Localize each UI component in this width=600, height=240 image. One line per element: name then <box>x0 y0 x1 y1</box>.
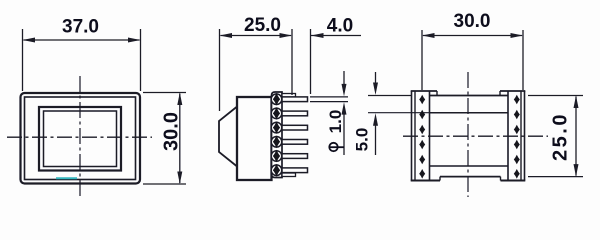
dimension 30.0 (front view height) extension line top <box>143 92 186 94</box>
dimension 25.0 line with arrows <box>220 33 293 38</box>
dimension 37.0 line with arrows <box>23 38 141 43</box>
dimension 25.0 extension line right <box>291 29 293 95</box>
pin 3 bar <box>282 125 308 130</box>
right strip pin diamonds <box>514 95 520 179</box>
dimension symbol phi <box>329 143 344 151</box>
dimension 5.0 extension line upper <box>368 95 412 97</box>
side view pin strip <box>272 92 283 178</box>
svg-text:25.0: 25.0 <box>244 15 281 36</box>
side view core nose <box>219 107 237 166</box>
pin strip bottom tab <box>282 173 296 177</box>
svg-text:30.0: 30.0 <box>454 11 491 32</box>
phi 1.0 lower arrow <box>342 102 347 155</box>
phi 1.0 upper arrow <box>342 71 347 96</box>
front view horizontal centerline <box>7 136 152 138</box>
rear view vertical centerline <box>467 72 469 197</box>
dimension 25.0 (rear) vertical line with arrows <box>574 96 579 177</box>
svg-text:1.0: 1.0 <box>326 110 345 134</box>
svg-text:4.0: 4.0 <box>327 16 353 37</box>
pin diamond markers (side view) <box>273 93 280 177</box>
svg-text:5.0: 5.0 <box>352 128 371 152</box>
rear view inner top line <box>430 112 509 114</box>
pin 5 bar <box>282 154 308 159</box>
dimension 4.0 extension line <box>310 29 312 94</box>
pin boss circles <box>271 94 282 176</box>
rear view top core line <box>430 95 509 97</box>
dimension 5.0 extension line lower <box>368 112 430 114</box>
front view outer shell <box>21 93 141 184</box>
rear view inner bottom line <box>430 165 509 167</box>
pin 6 bar <box>282 168 308 173</box>
dimension 4.0 leader line with arrow <box>311 33 361 38</box>
dimension 25.0 extension line left <box>219 29 221 111</box>
front view window inner <box>44 111 117 167</box>
rear view horizontal centerline <box>403 135 548 137</box>
dimension 30.0 (rear) line with arrows <box>422 33 523 38</box>
dimension 5.0 upper arrow <box>373 72 378 95</box>
dimension 30.0 (rear) extension line left <box>421 30 423 90</box>
svg-text:37.0: 37.0 <box>62 17 99 38</box>
pin 4 bar <box>282 140 308 145</box>
side view body <box>237 97 272 180</box>
scan artifact cyan line <box>56 177 77 179</box>
dimension 25.0 (rear height) extension line top <box>528 95 583 97</box>
left strip pin diamonds <box>419 95 425 179</box>
dimension 5.0 lower arrow <box>373 113 378 155</box>
dimension 37.0 extension line left <box>22 29 24 91</box>
phi 1.0 extension lines (pin diameter) <box>310 97 348 102</box>
left flange strip <box>411 91 440 181</box>
pin 1 bar <box>282 97 308 102</box>
front view vertical centerline <box>79 76 81 199</box>
dimension 30.0 (rear) extension line right <box>522 30 524 90</box>
front view window outer <box>39 107 121 171</box>
svg-text:25.0: 25.0 <box>550 112 572 161</box>
rear view bottom core line <box>440 176 501 178</box>
right flange strip <box>500 91 525 181</box>
dimension 30.0 vertical line with arrows <box>177 93 182 185</box>
dimension 25.0 (rear height) extension line bottom <box>528 176 583 178</box>
svg-text:30.0: 30.0 <box>161 112 183 151</box>
pin strip top tab <box>282 94 296 98</box>
front view inner shell line <box>25 97 136 180</box>
dimension 30.0 extension line bottom <box>143 183 186 185</box>
pin 2 bar <box>282 111 308 116</box>
dimension 37.0 extension line right <box>140 29 142 91</box>
